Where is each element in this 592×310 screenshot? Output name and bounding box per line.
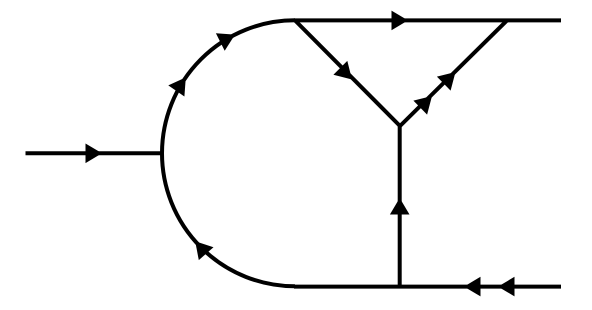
wire big loop half-circle [162,20,295,286]
wire top horizontal line [294,18,561,22]
wire bottom horizontal line [294,285,561,289]
arrowhead 2 on triangle right leg [437,72,456,91]
arrowhead 1 on upper arc [168,77,186,96]
arrowhead on triangle left leg [333,61,352,80]
arrowhead 1 on triangle right leg [413,96,432,115]
arrowhead on vertical line [390,198,410,215]
arrowhead on top line [392,11,409,31]
wire left incoming line [26,151,164,155]
arrowhead 1 on bottom line [464,277,481,297]
arrowhead 2 on bottom line [498,277,515,297]
wire triangle left leg [295,20,400,126]
arrowhead 2 on upper arc [216,33,235,51]
arrowhead on lower arc [195,241,213,260]
wire vertical line [398,124,402,287]
arrowhead on left incoming line [86,144,103,164]
wire triangle right leg [400,20,507,126]
